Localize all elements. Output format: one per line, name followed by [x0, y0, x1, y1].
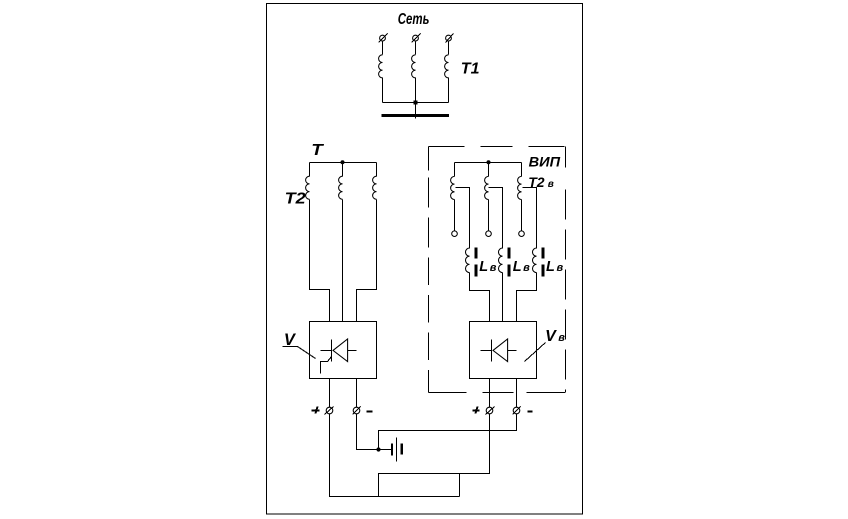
reactor Lv 3 core	[542, 248, 545, 277]
thyristor V anode lead	[321, 350, 332, 352]
open terminal w1	[452, 231, 458, 237]
wire bus to T2 w3	[376, 163, 378, 177]
rectifier V box	[310, 322, 377, 379]
transformer T2v winding 1	[451, 176, 455, 199]
junction battery node	[376, 447, 380, 451]
reactor Lv 2 core	[508, 248, 511, 277]
wire T2 w1 down	[310, 200, 330, 322]
wire Vv plus out	[489, 379, 491, 408]
wire Lv2 down	[502, 273, 504, 322]
svg-text:ВИП: ВИП	[529, 155, 561, 170]
wire Vv minus out	[516, 379, 518, 408]
svg-text:Lв: Lв	[479, 259, 496, 275]
wire battery node to right minus	[379, 414, 517, 450]
svg-text:T2: T2	[285, 190, 306, 207]
wire tap w2	[489, 188, 503, 249]
wire left plus to load	[330, 414, 460, 497]
battery GB plate 2	[396, 438, 398, 462]
wire phase1 to T1	[382, 42, 384, 55]
wire T2 top bus	[310, 162, 377, 164]
svg-text:Lв: Lв	[513, 259, 530, 275]
wire bus to T2v w2	[488, 163, 490, 177]
terminal V plus	[325, 407, 334, 415]
wire T2v w2 to open terminal	[488, 200, 490, 231]
reactor Lv 3 coil	[533, 248, 537, 273]
junction T2v bus	[487, 160, 491, 164]
wire left minus to battery	[357, 414, 392, 450]
wire V minus out	[356, 379, 358, 408]
wire Lv1 down	[470, 273, 490, 322]
battery GB plate 1	[391, 444, 393, 456]
wire bus to T2v w3	[521, 163, 523, 177]
wire star to core	[415, 103, 417, 119]
thyristor V cathode bar	[331, 340, 333, 362]
wire bus to T2 w2	[342, 163, 344, 177]
reactor Lv 2 coil	[498, 248, 502, 273]
terminal V minus	[353, 407, 361, 415]
reactor Lv 1 core	[475, 248, 478, 277]
thyristor V lead right	[348, 350, 357, 352]
wire tap w3	[523, 188, 537, 249]
label minus left	[367, 411, 373, 413]
wire phase3 to T1	[448, 42, 450, 55]
terminal Vv minus	[513, 407, 521, 415]
transformer T2 winding 1	[306, 176, 310, 199]
thyristor V triangle	[333, 339, 348, 362]
wire T2v w3 to open terminal	[521, 200, 523, 231]
junction T2 bus	[341, 160, 345, 164]
terminal A phase 1	[379, 34, 388, 43]
transformer T2v winding 3	[518, 176, 522, 199]
wire T2 w2 down	[342, 200, 344, 322]
terminal A phase 2	[412, 34, 421, 43]
battery GB plate 3	[401, 444, 403, 455]
wire T1 w3 to bus	[448, 78, 450, 103]
wire T2v w1 to open terminal	[454, 200, 456, 231]
rectifier Vv box	[470, 322, 537, 379]
wire T1 w1 to bus	[382, 78, 384, 103]
load resistor box	[379, 474, 460, 497]
open terminal w3	[519, 231, 525, 237]
wire right plus to load	[460, 414, 490, 474]
leader V	[283, 347, 316, 359]
svg-text:T1: T1	[461, 60, 480, 77]
T1 core bar	[382, 114, 450, 117]
block VIP dashed box	[429, 147, 566, 393]
label plus left	[312, 407, 320, 414]
transformer T2v winding 2	[485, 176, 489, 199]
svg-text:Сеть: Сеть	[398, 11, 430, 28]
wire V plus out	[329, 379, 331, 408]
svg-text:Vв: Vв	[545, 328, 565, 345]
diode Vv triangle	[493, 339, 508, 362]
transformer T1 winding 3	[445, 55, 449, 78]
transformer T2 winding 2	[339, 176, 343, 199]
terminal A phase 3	[446, 34, 454, 43]
transformer T2 winding 3	[373, 176, 377, 199]
thyristor V gate	[321, 357, 332, 374]
terminal Vv plus	[486, 407, 495, 415]
wire Lv3 down	[517, 273, 537, 322]
wire T1 star bus	[383, 102, 449, 104]
transformer T1 winding 1	[379, 55, 383, 78]
wire tap w1	[456, 188, 470, 249]
diode Vv lead right	[508, 350, 517, 352]
junction T1 star point	[414, 101, 418, 105]
wire T1 w2 to bus	[415, 78, 417, 103]
diode Vv cathode bar	[491, 340, 493, 362]
label plus right	[473, 407, 480, 414]
leader Vv	[525, 343, 546, 362]
transformer T1 winding 2	[412, 55, 416, 78]
wire phase2 to T1	[415, 42, 417, 55]
svg-text:Lв: Lв	[546, 259, 563, 275]
reactor Lv 1 coil	[466, 248, 470, 273]
wire bus to T2 w1	[309, 163, 311, 177]
wire T2 w3 down	[357, 200, 377, 322]
label minus right	[528, 411, 533, 413]
svg-text:T: T	[311, 142, 324, 159]
wire T2v top bus	[455, 162, 522, 164]
open terminal w2	[486, 231, 492, 237]
wire bus to T2v w1	[454, 163, 456, 177]
diode Vv anode lead	[481, 350, 492, 352]
